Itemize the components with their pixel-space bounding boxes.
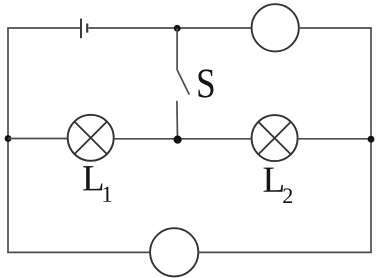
wire: middle row centre segment xyxy=(114,138,252,140)
wire: right vertical xyxy=(370,28,372,252)
wire: top middle segment (battery to top-right meter) xyxy=(89,27,252,29)
node: left middle junction dot xyxy=(5,135,12,142)
node: top junction dot xyxy=(174,25,181,32)
wire: bottom right segment xyxy=(198,251,371,253)
node: right middle junction dot xyxy=(368,136,375,143)
wire: left vertical xyxy=(7,28,9,252)
label L2 xyxy=(264,168,283,192)
lamp L2 circle xyxy=(252,115,298,161)
switch S lower lead xyxy=(176,101,179,140)
wire: top left segment (corner to battery) xyxy=(7,27,80,29)
lamp L1 circle xyxy=(68,115,114,161)
battery B1 short plate xyxy=(86,24,88,33)
label S xyxy=(198,69,213,97)
lamp L1 cross stroke 1 xyxy=(74,122,107,155)
wire: middle row right segment xyxy=(298,138,371,140)
lamp L2 cross stroke 1 xyxy=(258,122,291,155)
node: middle junction dot xyxy=(174,136,182,144)
label L1 xyxy=(83,166,102,190)
battery B1 long plate xyxy=(80,19,82,39)
wire: middle row left segment xyxy=(8,138,68,140)
switch S blade (open) xyxy=(177,70,189,95)
lamp L2 cross stroke 2 xyxy=(258,122,291,155)
meter M1 (top right circle) xyxy=(252,4,299,51)
meter M2 (bottom circle) xyxy=(150,228,198,276)
switch S upper lead xyxy=(176,28,178,70)
wire: top right segment (meter to right corner) xyxy=(299,27,372,29)
lamp L1 cross stroke 2 xyxy=(74,122,107,155)
wire: bottom left segment xyxy=(7,251,150,253)
